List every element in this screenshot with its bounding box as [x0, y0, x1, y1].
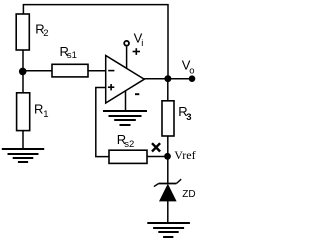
- ground left (under R1): [2, 149, 44, 162]
- zener diode ZD: [154, 179, 181, 201]
- X marker at Vref node: [152, 143, 160, 151]
- svg-text:ZD: ZD: [182, 189, 195, 200]
- wire R1 bottom to ground: [22, 131, 24, 150]
- op-amp inverting input minus sign: [108, 70, 114, 72]
- svg-text:2: 2: [43, 28, 48, 39]
- wire op-amp non-inverting input to Rs2 (left-down-right): [96, 88, 109, 157]
- node A junction dot (R1/R2/Rs1): [19, 68, 27, 76]
- resistor R3: [162, 101, 174, 136]
- op-amp non-inverting input plus sign: [108, 84, 114, 90]
- svg-text:R: R: [34, 101, 43, 116]
- resistor Rs1: [52, 64, 88, 77]
- wire R2 bottom to node A: [22, 50, 24, 71]
- wire feedback top: output node up over to R2 top: [23, 5, 168, 79]
- ground right (under zener): [147, 223, 190, 237]
- svg-text:1: 1: [43, 109, 48, 120]
- svg-text:i: i: [141, 38, 143, 49]
- resistor R1: [17, 93, 30, 131]
- wire node Vref down to zener: [167, 156, 169, 183]
- resistor Rs2: [109, 150, 147, 163]
- wire node A to Rs1 left: [23, 70, 52, 72]
- wire output node down to R3: [167, 79, 169, 101]
- ground middle (op-amp supply): [103, 111, 147, 125]
- svg-text:s1: s1: [67, 50, 77, 61]
- wire node A down to R1 top: [22, 71, 24, 93]
- wire Rs2 right to node Vref: [147, 156, 168, 158]
- plus sign positive supply: [133, 48, 140, 55]
- op-amp U1 triangle: [106, 56, 145, 104]
- minus sign negative supply: [135, 93, 139, 95]
- node output junction dot: [164, 75, 171, 82]
- svg-text:Vref: Vref: [174, 148, 195, 162]
- node Vref junction dot: [164, 153, 171, 160]
- wire op-amp negative supply pin to ground: [125, 91, 127, 111]
- resistor R2: [16, 14, 29, 50]
- wire op-amp output to Vo: [144, 78, 192, 80]
- wire zener to ground: [167, 201, 169, 224]
- terminal Vi open circle: [124, 41, 129, 46]
- wire Vi to op-amp positive supply pin: [126, 47, 128, 69]
- wire Rs1 right to op-amp inverting input: [88, 70, 106, 72]
- svg-text:s2: s2: [124, 139, 134, 150]
- terminal Vo dot: [189, 75, 196, 82]
- wire R3 bottom to node Vref: [167, 136, 169, 156]
- svg-text:3: 3: [186, 112, 191, 123]
- svg-text:o: o: [189, 66, 194, 77]
